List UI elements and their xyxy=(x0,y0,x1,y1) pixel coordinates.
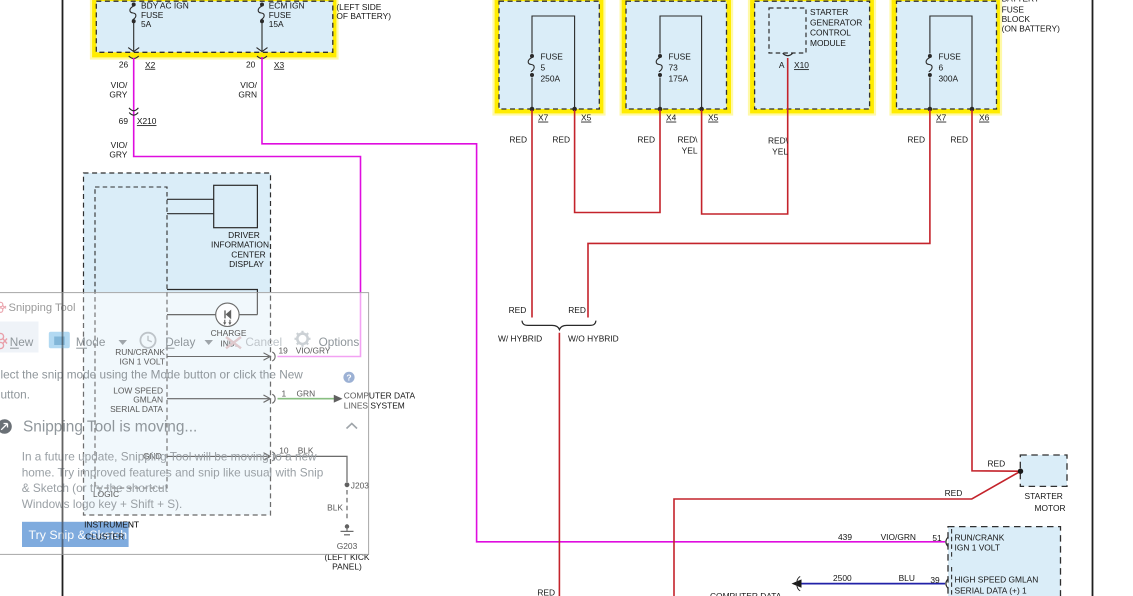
svg-text:GRY: GRY xyxy=(109,149,127,159)
toolbar Mode caret xyxy=(119,340,128,345)
svg-text:GRN: GRN xyxy=(238,89,257,99)
svg-text:New: New xyxy=(10,335,34,349)
svg-text:INSTRUMENT: INSTRUMENT xyxy=(84,519,139,529)
svg-text:X210: X210 xyxy=(137,116,157,126)
wire VIO/GRY from X2 to X210 xyxy=(133,58,135,157)
wire RED/YEL fuse73 X5 to SGCM A U-loop xyxy=(702,58,788,214)
svg-text:Snipping Tool is moving...: Snipping Tool is moving... xyxy=(23,418,197,435)
svg-text:15A: 15A xyxy=(269,19,284,29)
svg-text:RED: RED xyxy=(568,305,586,315)
svg-text:CONTROL: CONTROL xyxy=(810,28,851,38)
svg-text:RED: RED xyxy=(637,134,655,144)
svg-text:Options: Options xyxy=(319,335,360,349)
svg-text:X4: X4 xyxy=(666,113,677,123)
svg-text:RED\: RED\ xyxy=(768,135,789,145)
fuse block box FUSE 6 xyxy=(891,0,1002,115)
svg-text:Mode: Mode xyxy=(76,335,106,349)
svg-text:MOTOR: MOTOR xyxy=(1034,503,1065,513)
svg-text:HIGH SPEED GMLAN: HIGH SPEED GMLAN xyxy=(955,575,1039,585)
svg-text:?: ? xyxy=(346,373,351,383)
svg-text:300A: 300A xyxy=(939,74,959,84)
svg-text:5A: 5A xyxy=(141,19,152,29)
svg-text:Windows logo key + Shift + S).: Windows logo key + Shift + S). xyxy=(22,497,183,511)
starter motor box xyxy=(1020,455,1067,486)
svg-text:STARTER: STARTER xyxy=(810,7,848,17)
svg-text:FUSE: FUSE xyxy=(939,52,962,62)
svg-text:X7: X7 xyxy=(936,113,947,123)
svg-text:69: 69 xyxy=(119,116,129,126)
wire RED fuse6 X6 down to starter motor xyxy=(972,110,1021,471)
wire RED fuse6 X7 long horizontal to brace xyxy=(588,110,930,318)
svg-text:RED: RED xyxy=(907,134,925,144)
connector cup pin 39 xyxy=(946,579,948,589)
connector X210 symbol xyxy=(129,108,138,111)
svg-text:X2: X2 xyxy=(145,60,156,70)
fuse 73 175A loop xyxy=(656,16,701,109)
svg-text:39: 39 xyxy=(930,575,940,585)
junction X5b dot xyxy=(699,107,704,112)
try snip button xyxy=(22,522,129,547)
help question icon xyxy=(343,372,354,383)
svg-text:SERIAL DATA (+) 1: SERIAL DATA (+) 1 xyxy=(955,586,1028,596)
svg-text:utton.: utton. xyxy=(1,387,31,401)
svg-text:COMPUTER DATA: COMPUTER DATA xyxy=(710,591,782,596)
body control module box xyxy=(948,527,1061,596)
junction X5 dot xyxy=(572,107,577,112)
svg-text:W/O HYBRID: W/O HYBRID xyxy=(568,333,619,343)
wire RED fuse5 X7 down to hybrid brace xyxy=(531,110,533,318)
fuse BDY AC IGN 5A xyxy=(128,3,139,52)
svg-text:Delay: Delay xyxy=(165,335,195,349)
svg-text:BLU: BLU xyxy=(899,573,915,583)
svg-text:GRY: GRY xyxy=(109,89,127,99)
svg-text:A: A xyxy=(779,60,785,70)
fuse ECM IGN 15A xyxy=(257,3,268,52)
pin separator dashes module xyxy=(951,529,953,560)
svg-text:MODULE: MODULE xyxy=(810,38,846,48)
svg-text:6: 6 xyxy=(939,63,944,73)
svg-text:X5: X5 xyxy=(581,113,592,123)
svg-text:STARTER: STARTER xyxy=(1025,491,1063,501)
left border line redrawn over overlay xyxy=(62,293,64,555)
svg-text:Cancel: Cancel xyxy=(245,335,282,349)
svg-text:51: 51 xyxy=(932,533,942,543)
svg-text:RED: RED xyxy=(509,134,527,144)
toolbar Delay clock icon xyxy=(140,333,155,348)
cluster ink boost through translucent window xyxy=(84,173,416,571)
svg-text:home. Try improved features an: home. Try improved features and snip lik… xyxy=(22,465,324,479)
wire RED lower feed to starter motor xyxy=(674,471,1021,596)
svg-text:FUSE: FUSE xyxy=(669,52,692,62)
svg-text:RUN/CRANK: RUN/CRANK xyxy=(955,532,1005,542)
svg-text:BATTERY: BATTERY xyxy=(1002,0,1040,4)
svg-text:& Sketch (or try the shortcut: & Sketch (or try the shortcut xyxy=(22,481,169,495)
svg-text:YEL: YEL xyxy=(682,145,698,155)
svg-text:X10: X10 xyxy=(794,60,809,70)
svg-text:VIO/GRN: VIO/GRN xyxy=(881,532,916,542)
svg-text:CLUSTER: CLUSTER xyxy=(85,531,124,541)
junction dot starter xyxy=(1018,469,1023,474)
diagram left border line xyxy=(62,0,64,596)
svg-text:175A: 175A xyxy=(669,74,689,84)
diagram right border line xyxy=(1092,0,1094,596)
svg-text:W/ HYBRID: W/ HYBRID xyxy=(498,333,542,343)
svg-text:RED\: RED\ xyxy=(677,134,698,144)
svg-text:RED: RED xyxy=(537,587,555,596)
wire RED fuse5 X5 to fuse73 X4 U-loop xyxy=(575,110,660,213)
svg-text:X3: X3 xyxy=(274,60,285,70)
notification collapse chevron xyxy=(347,424,358,429)
hybrid selection brace xyxy=(522,321,596,330)
svg-text:RED: RED xyxy=(988,459,1006,469)
svg-text:IGN 1 VOLT: IGN 1 VOLT xyxy=(955,543,1000,553)
connector X3 cup xyxy=(257,56,267,59)
svg-text:X5: X5 xyxy=(708,113,719,123)
svg-text:250A: 250A xyxy=(541,74,561,84)
svg-text:X7: X7 xyxy=(538,113,549,123)
fuse block (left side of battery) yellow highlight box xyxy=(91,0,338,59)
svg-text:RED: RED xyxy=(945,488,963,498)
junction X6 dot xyxy=(970,107,975,112)
toolbar Options gear icon xyxy=(295,331,311,347)
svg-text:YEL: YEL xyxy=(772,146,788,156)
cluster box fills xyxy=(84,173,271,515)
starter generator control module yellow box xyxy=(749,0,875,115)
svg-text:26: 26 xyxy=(119,60,129,70)
fuse block box FUSE 5 xyxy=(494,0,605,115)
svg-text:In a future update, Snipping T: In a future update, Snipping Tool will b… xyxy=(22,450,317,464)
svg-text:GENERATOR: GENERATOR xyxy=(810,17,862,27)
svg-text:Snipping Tool: Snipping Tool xyxy=(9,302,76,314)
title bar icon (partial scissors) xyxy=(0,302,6,312)
cluster ink base layer xyxy=(84,173,416,571)
svg-text:BLOCK: BLOCK xyxy=(1002,14,1031,24)
connector X2 cup xyxy=(129,56,139,59)
svg-text:2500: 2500 xyxy=(833,573,852,583)
svg-text:OF BATTERY): OF BATTERY) xyxy=(336,11,391,21)
fuse 5 250A loop xyxy=(528,16,574,109)
svg-text:5: 5 xyxy=(541,63,546,73)
junction X4 dot xyxy=(658,107,663,112)
junction X7 dot xyxy=(530,107,535,112)
svg-text:FUSE: FUSE xyxy=(541,52,564,62)
svg-text:RED: RED xyxy=(950,134,968,144)
notification icon xyxy=(0,419,12,434)
svg-text:439: 439 xyxy=(838,532,852,542)
fuse 6 300A loop xyxy=(926,16,972,109)
SGCM inner dashed sub-box xyxy=(769,8,806,53)
svg-text:73: 73 xyxy=(669,63,679,73)
arrow BLU left xyxy=(792,579,802,587)
wire VIO/GRY from X210 to instrument cluster pin 19 xyxy=(134,156,361,357)
toolbar Cancel X icon xyxy=(226,337,241,348)
svg-text:lect the snip mode using the M: lect the snip mode using the Mode button… xyxy=(1,368,304,382)
fuse block box FUSE 73 xyxy=(621,0,733,115)
wire BLU 2500 xyxy=(801,583,945,585)
toolbar Delay caret xyxy=(205,340,214,345)
svg-text:RED: RED xyxy=(552,134,570,144)
toolbar Mode icon xyxy=(49,332,70,349)
toolbar new hover panel xyxy=(0,322,39,353)
wire VIO/GRN from X3 down to BCM pin 51 xyxy=(262,57,945,542)
svg-text:(ON BATTERY): (ON BATTERY) xyxy=(1002,24,1061,34)
svg-text:20: 20 xyxy=(246,60,256,70)
svg-text:RED: RED xyxy=(509,305,527,315)
connector cup pin 51 xyxy=(946,537,948,547)
junction X7b dot xyxy=(928,107,933,112)
wire RED combined hybrid down to bottom xyxy=(558,333,560,596)
connector A X10 cup xyxy=(783,53,793,56)
toolbar new scissors icon xyxy=(0,333,7,348)
svg-text:X6: X6 xyxy=(979,113,990,123)
